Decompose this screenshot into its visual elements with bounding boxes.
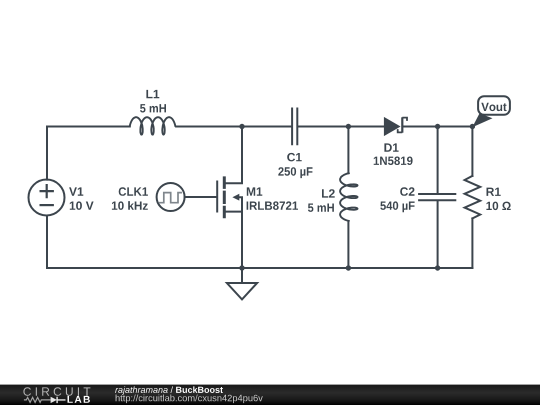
label M1 part IRLB8721 <box>247 201 298 210</box>
capacitor C2 plates <box>419 194 455 200</box>
label R1 designator <box>487 188 501 196</box>
diode D1 triangle <box>384 117 401 136</box>
wire bottom middle (M1 source node to L2) <box>242 267 348 269</box>
resistor R1 zigzag <box>465 176 481 219</box>
transistor M1 body arrow head <box>232 194 239 201</box>
CLK1 square wave glyph <box>160 193 181 203</box>
footer logo resistor zigzag <box>24 397 51 402</box>
junction dot bottom of L2 <box>346 265 351 270</box>
ground stem <box>241 268 243 283</box>
wire CLK1 to M1 gate <box>185 196 217 198</box>
capacitor C2 top lead <box>437 127 439 194</box>
voltage source V1 circle <box>29 180 65 216</box>
wire D1 cathode to C2 top to R1 top <box>403 126 472 128</box>
wire C1 to node A (L2 top) <box>298 126 348 128</box>
ground triangle <box>227 283 257 299</box>
footer credit circuit title <box>176 386 223 393</box>
junction dot bottom M1 source <box>239 265 244 270</box>
wire V1 bottom lead + bottom-left corner <box>47 216 242 269</box>
capacitor C2 bottom lead <box>437 201 439 268</box>
V1 minus sign <box>41 204 53 206</box>
label C2 designator <box>400 187 414 196</box>
label CLK1 value 10 kHz <box>112 201 148 210</box>
transistor M1 channel bars <box>223 178 226 217</box>
inductor L2 top lead <box>347 127 349 174</box>
label D1 designator <box>384 143 398 151</box>
diode D1 schottky bottom hook <box>398 129 403 132</box>
diode D1 schottky cathode bar <box>401 117 403 132</box>
label L2 designator <box>322 189 335 197</box>
Vout flag tail <box>472 113 492 127</box>
wire node A to D1 anode <box>348 126 384 128</box>
label D1 part 1N5819 <box>374 157 413 166</box>
diode D1 schottky top hook <box>402 118 407 121</box>
transistor M1 gate bar <box>216 182 218 212</box>
footer credit separator <box>171 386 174 393</box>
wire bottom right (L2 to C2 to R1) <box>348 267 472 269</box>
footer logo CIRCUIT wordmark <box>23 387 90 396</box>
Vout flag box <box>478 96 510 115</box>
node label Vout text <box>481 103 506 111</box>
label R1 value 10 ohm <box>486 202 510 211</box>
footer credit author name <box>115 386 168 394</box>
inductor L1 coil <box>130 117 176 134</box>
label C2 value 540 uF <box>380 201 414 212</box>
resistor R1 bottom lead <box>471 218 473 268</box>
junction dot top of C2 <box>435 124 440 129</box>
transistor M1 drain lead <box>226 127 242 184</box>
transistor M1 body line <box>239 197 242 211</box>
label C1 designator <box>287 153 302 162</box>
label C1 value 250 uF <box>278 167 312 178</box>
footer bar background <box>0 385 540 405</box>
junction dot top M1 drain <box>239 124 244 129</box>
label M1 designator <box>247 187 262 195</box>
label CLK1 designator <box>119 187 148 196</box>
wire L1 to C1 <box>176 126 291 128</box>
footer logo diode symbol <box>51 397 57 403</box>
footer url <box>116 395 263 404</box>
capacitor C1 plates <box>292 109 297 145</box>
V1 plus sign <box>41 185 53 197</box>
transistor M1 source lead <box>226 212 242 268</box>
clock source CLK1 circle <box>157 183 185 211</box>
inductor L2 bottom lead <box>347 222 349 268</box>
label V1 value 10 V <box>70 201 94 210</box>
label V1 designator <box>69 187 83 195</box>
junction dot bottom of C2 <box>435 265 440 270</box>
wire left branch (V1 top lead + top-left corner) <box>47 127 130 180</box>
label L1 value 5 mH <box>140 104 166 112</box>
label L2 value 5 mH <box>308 204 334 212</box>
resistor R1 top lead <box>471 127 473 176</box>
junction dot node A top of L2 <box>346 124 351 129</box>
label L1 designator <box>146 90 159 98</box>
footer logo LAB wordmark <box>68 396 90 403</box>
inductor L2 coil <box>340 173 357 221</box>
junction dot Vout node <box>470 124 475 129</box>
